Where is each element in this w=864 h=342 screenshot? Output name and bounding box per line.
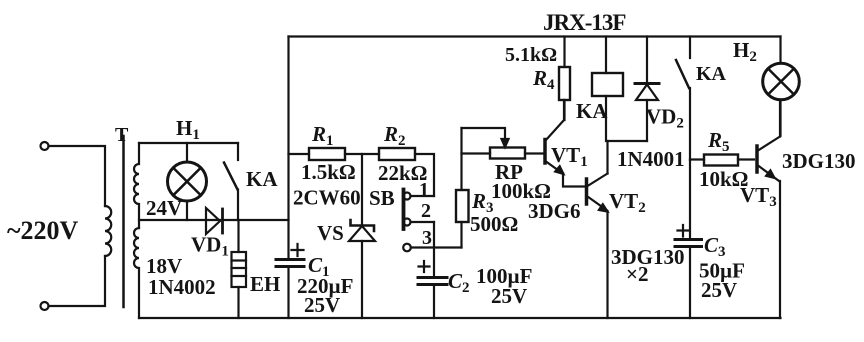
lamp H1: [186, 143, 188, 162]
svg-text:×2: ×2: [626, 262, 648, 286]
wire DC+ node vertical: [287, 37, 289, 260]
potentiometer RP: [462, 152, 491, 154]
svg-text:R1: R1: [311, 122, 334, 149]
lamp H2: [779, 37, 781, 64]
terminal top-left: [41, 142, 49, 150]
resistor R3: [460, 128, 462, 190]
svg-text:3DG130: 3DG130: [782, 149, 856, 173]
svg-text:EH: EH: [250, 272, 280, 296]
secondary winding 18V: [134, 228, 139, 318]
capacitor C2: [418, 276, 447, 279]
svg-text:R2: R2: [383, 122, 406, 149]
svg-text:3DG6: 3DG6: [528, 199, 581, 223]
svg-text:500Ω: 500Ω: [470, 212, 518, 236]
svg-text:JRX-13F: JRX-13F: [543, 10, 625, 35]
svg-text:1.5kΩ: 1.5kΩ: [301, 160, 356, 184]
top supply rail: [289, 35, 781, 37]
svg-text:VT2: VT2: [609, 189, 646, 216]
svg-text:1N4002: 1N4002: [148, 275, 216, 299]
svg-text:2: 2: [421, 200, 431, 222]
svg-text:3: 3: [422, 227, 432, 249]
heater element EH: [237, 220, 239, 252]
svg-text:VD1: VD1: [191, 233, 229, 260]
svg-text:H1: H1: [176, 116, 200, 143]
svg-text:VS: VS: [317, 221, 344, 245]
resistor R5: [690, 158, 704, 160]
wire SB2 down to C2: [433, 222, 435, 277]
primary winding of transformer T: [105, 206, 111, 256]
wire mid-tap with VD1: [139, 219, 289, 221]
SB plunger: [402, 190, 406, 230]
svg-text:VD2: VD2: [646, 105, 684, 132]
svg-text:25V: 25V: [701, 278, 737, 302]
wire top of 24V winding: [139, 142, 238, 144]
bottom ground rail: [139, 317, 781, 319]
svg-text:25V: 25V: [491, 284, 527, 308]
svg-text:C3: C3: [704, 233, 726, 260]
pushbutton SB contact 1: [404, 193, 411, 200]
svg-text:H2: H2: [733, 38, 757, 65]
terminal bottom-left: [41, 302, 49, 310]
transistor VT1: [543, 140, 547, 164]
wiper feed wire and arrow: [462, 128, 506, 139]
svg-text:24V: 24V: [146, 196, 182, 220]
svg-text:SB: SB: [369, 186, 395, 210]
capacitor C1: [276, 258, 304, 261]
capacitor C3: [689, 160, 691, 239]
svg-text:T: T: [115, 124, 129, 146]
svg-text:~220V: ~220V: [7, 216, 79, 245]
transistor VT3: [755, 146, 759, 172]
svg-text:1N4001: 1N4001: [617, 147, 685, 171]
svg-text:C2: C2: [448, 269, 470, 296]
relay contact KA (left): [237, 143, 239, 160]
SB contact 2: [404, 219, 411, 226]
wire VT2 collector to VD2: [608, 140, 648, 142]
zener VS 2CW60: [361, 154, 363, 225]
transistor VT2: [585, 179, 589, 204]
resistor R1: [289, 153, 310, 155]
svg-text:1: 1: [419, 179, 429, 201]
svg-text:R5: R5: [707, 128, 730, 155]
svg-text:VT1: VT1: [551, 143, 588, 170]
svg-text:5.1kΩ: 5.1kΩ: [505, 44, 557, 66]
secondary winding 24V: [134, 143, 139, 228]
wire: [49, 146, 106, 206]
svg-text:25V: 25V: [304, 293, 340, 317]
relay coil KA: [605, 37, 607, 74]
svg-text:KA: KA: [696, 63, 727, 85]
SB contact 3: [403, 244, 411, 252]
svg-text:KA: KA: [576, 99, 608, 123]
svg-text:KA: KA: [246, 167, 278, 191]
relay contact KA (right): [689, 37, 691, 59]
wire R2 to SB contact 1: [415, 154, 434, 196]
svg-text:VT3: VT3: [740, 183, 777, 210]
resistor R4: [563, 37, 565, 68]
resistor R2: [379, 148, 415, 160]
svg-text:R4: R4: [532, 66, 555, 93]
wire: [345, 153, 379, 155]
svg-text:2CW60: 2CW60: [293, 186, 361, 210]
transformer core: [122, 136, 125, 307]
wire: [49, 256, 106, 306]
diode VD1: [206, 208, 220, 234]
diode VD2: [646, 37, 648, 84]
